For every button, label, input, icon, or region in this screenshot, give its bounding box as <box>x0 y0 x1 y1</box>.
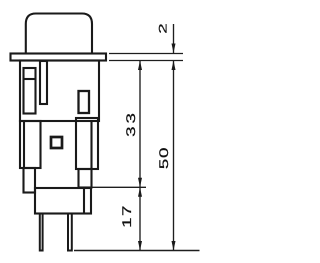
svg-text:50: 50 <box>157 147 171 169</box>
svg-text:2: 2 <box>158 23 170 33</box>
svg-text:17: 17 <box>120 204 134 228</box>
svg-text:33: 33 <box>124 110 138 137</box>
